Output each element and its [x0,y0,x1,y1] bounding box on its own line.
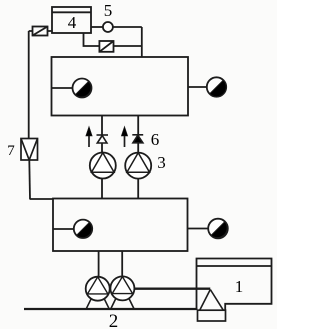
sensor S4 (lower-right, half filled circle) [208,219,228,239]
pipe lower-right (lower rect to pump 2b) [121,251,123,277]
svg-text:6: 6 [151,130,160,149]
sensor S1 (upper-left, half filled circle) [73,79,92,98]
tank 4 [52,7,91,33]
pipe right (upper rect to lower rect) [137,116,139,199]
svg-text:1: 1 [235,277,244,296]
upper heat exchanger rectangle [52,57,189,116]
svg-text:5: 5 [104,1,113,20]
wire air-vent to right riser [113,26,142,28]
pipe lower-left (lower rect to pump 2a) [98,251,100,277]
flow arrow A1 [86,127,92,148]
wire tank4 to air-vent 5 [91,26,103,28]
valve V2 (box with diagonal, below vent) [99,41,113,52]
right riser wire [141,27,143,57]
legs pump 2a [86,299,109,309]
wire to lower-right sensor [188,228,209,230]
valve V1 (box with diagonal, left of tank 4) [33,27,48,36]
wire to lower-left sensor [53,228,74,230]
wire to upper-right sensor [188,86,207,88]
discharge pipe from pump 2b to funnel [134,288,210,290]
pump 2b [110,276,134,308]
filter 7 [21,139,38,161]
pump 3a [90,153,116,179]
air vent 5 (circle) [103,22,113,32]
wire to upper-left sensor [52,87,73,89]
wire left riser lower [28,160,31,199]
check valve 6a (open) [97,135,109,143]
flow arrow A2 [121,127,127,148]
funnel cone [200,290,224,311]
svg-text:3: 3 [157,153,166,172]
sensor S2 (upper-right, half filled circle) [207,77,226,96]
svg-text:7: 7 [7,143,15,159]
wire left riser to lower rect top [30,198,54,200]
pump 2a [86,277,110,309]
wire left from valve to left riser [29,30,52,32]
pipe left (upper rect to lower rect) [101,116,103,199]
sensor S3 (lower-left, half filled circle) [74,220,92,238]
suction pipe bottom [24,308,198,310]
wire left riser upper [28,31,30,139]
svg-text:2: 2 [109,311,119,329]
tank 1 outline [197,259,272,311]
svg-text:4: 4 [68,13,77,32]
legs pump 2b [111,298,134,308]
funnel basin [198,310,226,321]
lower heat exchanger rectangle [53,199,188,252]
stub wire from tank4 bottom [84,33,100,46]
check valve 6b (filled) [132,135,143,143]
pump 3b [125,153,151,179]
wire valve V2 to right riser [114,45,142,47]
